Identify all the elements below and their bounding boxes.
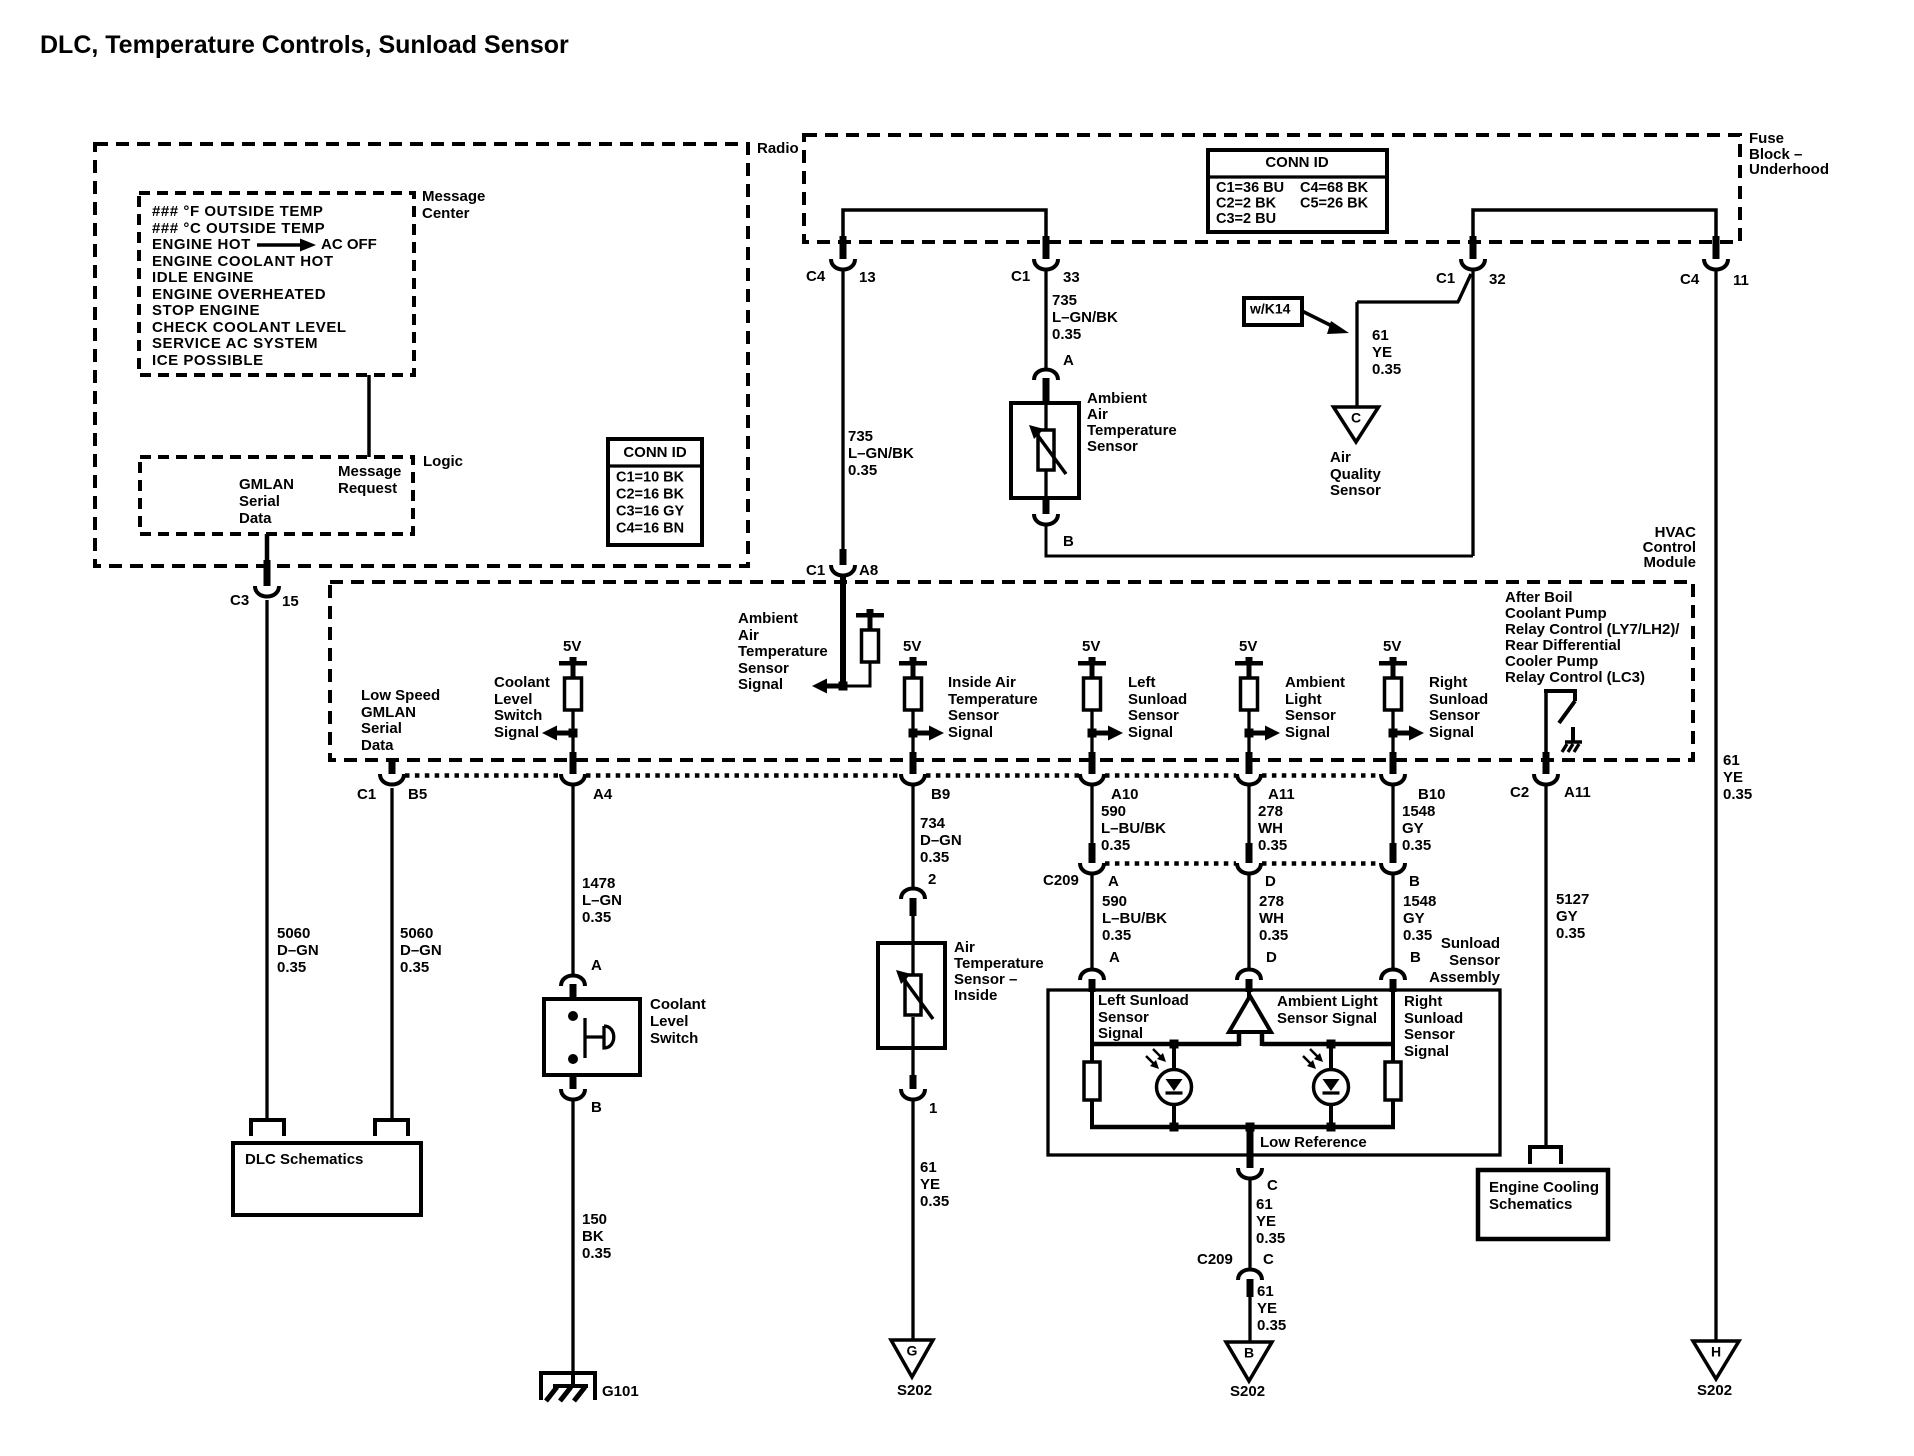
- svg-text:Signal: Signal: [1285, 724, 1330, 741]
- svg-text:0.35: 0.35: [848, 462, 877, 479]
- svg-text:0.35: 0.35: [1723, 786, 1752, 803]
- wire 5127 GY from HVAC C2-A11 to engine cooling schematics: [1544, 786, 1547, 1147]
- wire resistor to junction: [911, 710, 914, 733]
- wire from Message Center to Logic box: [367, 375, 371, 457]
- svg-text:Message: Message: [338, 463, 401, 480]
- svg-text:1548: 1548: [1402, 803, 1435, 820]
- wire 61 YE to splice S202: [911, 1101, 914, 1340]
- svg-text:Inside Air: Inside Air: [948, 674, 1016, 691]
- svg-text:Logic: Logic: [423, 453, 463, 470]
- svg-text:Sunload: Sunload: [1441, 935, 1500, 952]
- svg-text:278: 278: [1259, 893, 1284, 910]
- svg-text:WH: WH: [1258, 820, 1283, 837]
- svg-text:Signal: Signal: [1404, 1043, 1449, 1060]
- wire 1548 from HVAC to C209: [1391, 786, 1394, 847]
- ambient air temperature sensor box: [1011, 403, 1079, 498]
- svg-text:C5=26 BK: C5=26 BK: [1300, 195, 1369, 211]
- wire down to air quality sensor: [1355, 302, 1358, 407]
- wire resistor to junction: [1391, 710, 1394, 733]
- svg-text:Low Reference: Low Reference: [1260, 1134, 1367, 1151]
- svg-text:C3: C3: [230, 592, 249, 609]
- Sunload Sensor Assembly box: [1048, 990, 1500, 1155]
- svg-text:C209: C209: [1043, 872, 1079, 889]
- svg-text:Ambient: Ambient: [738, 610, 798, 627]
- HVAC module connector face dotted line: [405, 773, 560, 778]
- svg-text:B: B: [1244, 1345, 1254, 1361]
- svg-text:H: H: [1711, 1344, 1721, 1360]
- svg-text:C: C: [1351, 410, 1361, 426]
- svg-text:5127: 5127: [1556, 891, 1589, 908]
- svg-text:590: 590: [1102, 893, 1127, 910]
- Logic dashed box: [140, 457, 413, 534]
- svg-text:GY: GY: [1402, 820, 1424, 837]
- wire 1478 L-GN from HVAC A4 to coolant level switch: [571, 786, 574, 974]
- svg-text:0.35: 0.35: [582, 909, 611, 926]
- svg-text:L–BU/BK: L–BU/BK: [1102, 910, 1167, 927]
- svg-text:Sensor: Sensor: [1098, 1009, 1149, 1026]
- connector stub and arc B10: [1390, 752, 1397, 774]
- svg-text:5V: 5V: [1082, 638, 1100, 655]
- connector pin A arc into assembly: [1080, 970, 1104, 981]
- svg-text:S202: S202: [1230, 1383, 1265, 1400]
- svg-text:590: 590: [1101, 803, 1126, 820]
- svg-text:YE: YE: [1372, 344, 1392, 361]
- svg-text:Signal: Signal: [1429, 724, 1474, 741]
- svg-text:0.35: 0.35: [1258, 837, 1287, 854]
- svg-text:C1=10 BK: C1=10 BK: [616, 469, 685, 485]
- connector pin B arc into assembly: [1381, 970, 1405, 981]
- svg-text:L–BU/BK: L–BU/BK: [1101, 820, 1166, 837]
- svg-text:0.35: 0.35: [1257, 1317, 1286, 1334]
- connector C4 pin 11 exit stub and arc: [1713, 236, 1720, 259]
- wire 5060 D-GN from HVAC C1-B5 down to DLC Schematics: [390, 788, 393, 1118]
- wire below sensor to connector pin 1: [911, 1048, 914, 1076]
- junction and arrow ambient air temperature sensor signal: [826, 684, 843, 689]
- thermistor symbol ambient air temperature sensor: [1044, 403, 1047, 430]
- svg-text:33: 33: [1063, 269, 1080, 286]
- wire junction down to module connector: [911, 733, 914, 755]
- wire assembly pin B to internal bus: [1391, 991, 1395, 1046]
- in-line connector C209 pin C: [1238, 1270, 1262, 1281]
- svg-text:0.35: 0.35: [1256, 1230, 1285, 1247]
- svg-text:735: 735: [1052, 292, 1077, 309]
- wire 734 D-GN from HVAC B9 to inside air temperature sensor: [911, 786, 914, 888]
- wire assembly pin D to amplifier: [1247, 991, 1251, 998]
- Fuse Block - Underhood dashed boundary box: [804, 135, 1740, 242]
- svg-text:CONN ID: CONN ID: [1265, 154, 1329, 171]
- wire junction down to module connector: [1391, 733, 1394, 755]
- svg-text:13: 13: [859, 269, 876, 286]
- wire resistor to junction: [571, 710, 574, 733]
- connector pin B stub and arc below sensor: [1043, 498, 1050, 514]
- connector pin A arc into ambient air temperature sensor: [1034, 370, 1058, 381]
- svg-text:Request: Request: [338, 480, 397, 497]
- low reference tap to assembly pin C: [1247, 1127, 1254, 1156]
- svg-text:A: A: [1109, 949, 1120, 966]
- svg-text:0.35: 0.35: [1403, 927, 1432, 944]
- arrow ENGINE HOT to AC OFF: [257, 243, 300, 247]
- air quality sensor triangle C: [1334, 407, 1379, 442]
- connector C1 pin 33 exit stub and arc: [1043, 236, 1050, 259]
- svg-text:D–GN: D–GN: [277, 942, 319, 959]
- junction and signal arrow: [556, 731, 573, 736]
- in-line connector C209 pin B: [1390, 843, 1397, 863]
- connector pin C stub and arc below assembly: [1247, 1155, 1254, 1168]
- svg-text:Engine Cooling: Engine Cooling: [1489, 1179, 1599, 1196]
- svg-text:A: A: [1108, 873, 1119, 890]
- svg-text:Light: Light: [1285, 691, 1322, 708]
- svg-text:A11: A11: [1564, 784, 1591, 801]
- amplifier triangle ambient light sensor: [1229, 996, 1271, 1032]
- connector C3 pin 15 arc: [255, 586, 279, 597]
- off-page bracket into DLC Schematics (left): [251, 1120, 284, 1136]
- svg-text:Coolant: Coolant: [650, 996, 706, 1013]
- connector pin D arc into assembly: [1237, 970, 1261, 981]
- svg-text:WH: WH: [1259, 910, 1284, 927]
- svg-text:Data: Data: [361, 737, 394, 754]
- CONN ID table for Radio connectors: [608, 439, 702, 545]
- svg-text:C4=68 BK: C4=68 BK: [1300, 180, 1369, 196]
- connector stub and arc A11: [1246, 752, 1253, 774]
- left sunload sensor load resistor: [1090, 1044, 1094, 1062]
- svg-text:C2=16 BK: C2=16 BK: [616, 486, 685, 502]
- svg-text:Sensor: Sensor: [1330, 482, 1381, 499]
- svg-text:Right: Right: [1404, 993, 1442, 1010]
- svg-text:0.35: 0.35: [400, 959, 429, 976]
- svg-text:Serial: Serial: [239, 493, 280, 510]
- svg-text:0.35: 0.35: [1101, 837, 1130, 854]
- svg-text:C1: C1: [1011, 268, 1030, 285]
- svg-text:Switch: Switch: [650, 1030, 698, 1047]
- svg-text:GY: GY: [1403, 910, 1425, 927]
- wire to air quality sensor horizontal: [1357, 300, 1459, 303]
- wire 1548 from C209 to sunload sensor assembly: [1391, 875, 1394, 968]
- svg-text:Sensor Signal: Sensor Signal: [1277, 1010, 1377, 1027]
- svg-text:Sensor: Sensor: [738, 660, 789, 677]
- svg-text:YE: YE: [1257, 1300, 1277, 1317]
- svg-text:ICE POSSIBLE: ICE POSSIBLE: [152, 352, 264, 369]
- svg-text:B5: B5: [408, 786, 427, 803]
- svg-text:Center: Center: [422, 205, 470, 222]
- svg-text:Switch: Switch: [494, 707, 542, 724]
- svg-text:0.35: 0.35: [277, 959, 306, 976]
- fuse block internal bus wire right (C1-32 to C4-11): [1473, 210, 1716, 242]
- svg-text:Left Sunload: Left Sunload: [1098, 992, 1189, 1009]
- svg-text:C4: C4: [806, 268, 826, 285]
- wire resistor to junction: [1090, 710, 1093, 733]
- CONN ID table for Fuse Block connectors: [1208, 150, 1387, 232]
- svg-text:Relay Control (LY7/LH2)/: Relay Control (LY7/LH2)/: [1505, 621, 1680, 638]
- svg-text:C2=2 BK: C2=2 BK: [1216, 195, 1277, 211]
- wire sensor B to HVAC supply junction: [1046, 526, 1473, 556]
- svg-text:ENGINE HOT: ENGINE HOT: [152, 236, 251, 253]
- svg-text:A: A: [1063, 352, 1074, 369]
- wire 61 YE from fuse C4-11 down right side to splice S202: [1714, 271, 1717, 1341]
- svg-text:A: A: [591, 957, 602, 974]
- svg-text:YE: YE: [1723, 769, 1743, 786]
- svg-text:w/K14: w/K14: [1249, 301, 1291, 317]
- svg-text:61: 61: [920, 1159, 937, 1176]
- svg-text:Rear Differential: Rear Differential: [1505, 637, 1621, 654]
- svg-text:1: 1: [929, 1100, 937, 1117]
- svg-text:Data: Data: [239, 510, 272, 527]
- svg-text:0.35: 0.35: [1556, 925, 1585, 942]
- svg-text:C2: C2: [1510, 784, 1529, 801]
- svg-text:Assembly: Assembly: [1429, 969, 1501, 986]
- svg-text:B: B: [1410, 949, 1421, 966]
- arrow from w/K14 box to wire: [1302, 311, 1336, 328]
- svg-text:D–GN: D–GN: [400, 942, 442, 959]
- svg-text:0.35: 0.35: [1052, 326, 1081, 343]
- svg-text:Message: Message: [422, 188, 485, 205]
- svg-text:STOP ENGINE: STOP ENGINE: [152, 302, 260, 319]
- C209 connector face dotted line: [1105, 861, 1236, 866]
- svg-text:Sensor: Sensor: [1285, 707, 1336, 724]
- svg-text:Level: Level: [494, 691, 532, 708]
- svg-text:C: C: [1263, 1251, 1274, 1268]
- svg-text:SERVICE AC SYSTEM: SERVICE AC SYSTEM: [152, 335, 318, 352]
- svg-text:Sunload: Sunload: [1128, 691, 1187, 708]
- svg-text:B: B: [591, 1099, 602, 1116]
- svg-text:Ambient: Ambient: [1285, 674, 1345, 691]
- svg-text:DLC Schematics: DLC Schematics: [245, 1151, 363, 1168]
- svg-text:Temperature: Temperature: [1087, 422, 1177, 439]
- svg-text:Signal: Signal: [1098, 1025, 1143, 1042]
- svg-text:Temperature: Temperature: [738, 643, 828, 660]
- svg-text:Sensor: Sensor: [948, 707, 999, 724]
- svg-text:C209: C209: [1197, 1251, 1233, 1268]
- right photodiode ambient light sensor: [1329, 1044, 1333, 1070]
- wire 61 YE from assembly C to C209: [1248, 1180, 1251, 1268]
- svg-text:Signal: Signal: [738, 676, 783, 693]
- svg-text:AC OFF: AC OFF: [321, 236, 377, 253]
- splice S202 triangle B: [1226, 1342, 1272, 1381]
- svg-text:YE: YE: [1256, 1213, 1276, 1230]
- svg-text:Underhood: Underhood: [1749, 161, 1829, 178]
- svg-text:Radio: Radio: [757, 140, 799, 157]
- Engine Cooling Schematics box: [1478, 1170, 1608, 1239]
- wire 590 from HVAC to C209: [1090, 786, 1093, 847]
- svg-text:Air: Air: [1087, 406, 1108, 423]
- svg-text:B10: B10: [1418, 786, 1446, 803]
- svg-text:0.35: 0.35: [582, 1245, 611, 1262]
- internal low reference bus: [1090, 1125, 1395, 1130]
- svg-text:Sunload: Sunload: [1404, 1010, 1463, 1027]
- junction and signal arrow: [1393, 731, 1410, 736]
- wire 278 from C209 to sunload sensor assembly: [1247, 875, 1250, 968]
- internal bus upper left segment: [1090, 1042, 1239, 1047]
- svg-text:A8: A8: [859, 562, 878, 579]
- svg-text:L–GN/BK: L–GN/BK: [848, 445, 914, 462]
- svg-text:5060: 5060: [277, 925, 310, 942]
- fuse block internal bus wire left (C4-13 to C1-33): [843, 210, 1046, 242]
- svg-text:11: 11: [1733, 272, 1749, 289]
- svg-text:Quality: Quality: [1330, 466, 1382, 483]
- wire 61 YE from fuse C1-32 down to junction with sensor-B wire: [1471, 271, 1474, 556]
- svg-text:Air: Air: [738, 627, 759, 644]
- svg-text:0.35: 0.35: [1259, 927, 1288, 944]
- svg-text:C4=16 BN: C4=16 BN: [616, 520, 684, 536]
- svg-text:### °C OUTSIDE TEMP: ### °C OUTSIDE TEMP: [152, 220, 325, 237]
- svg-text:0.35: 0.35: [1372, 361, 1401, 378]
- svg-text:L–GN/BK: L–GN/BK: [1052, 309, 1118, 326]
- svg-text:BK: BK: [582, 1228, 604, 1245]
- diagonal wire branch to air quality sensor: [1458, 274, 1471, 302]
- connector C4 pin 13 exit stub and arc: [840, 236, 847, 259]
- svg-text:S202: S202: [1697, 1382, 1732, 1399]
- wire 735 L-GN/BK from fuse C1-33 to ambient sensor pin A: [1044, 271, 1047, 368]
- in-line connector C1 pin A8: [840, 549, 847, 565]
- wire into sensor: [911, 914, 914, 943]
- Radio module dashed boundary box: [95, 144, 748, 566]
- svg-text:Inside: Inside: [954, 987, 997, 1004]
- svg-text:C: C: [1267, 1177, 1278, 1194]
- off-page bracket into Engine Cooling Schematics: [1530, 1147, 1561, 1164]
- svg-text:ENGINE COOLANT HOT: ENGINE COOLANT HOT: [152, 253, 334, 270]
- svg-text:B9: B9: [931, 786, 950, 803]
- svg-text:32: 32: [1489, 271, 1506, 288]
- svg-text:### °F OUTSIDE TEMP: ### °F OUTSIDE TEMP: [152, 203, 323, 220]
- svg-text:Signal: Signal: [948, 724, 993, 741]
- svg-text:61: 61: [1723, 752, 1740, 769]
- svg-text:C3=2 BU: C3=2 BU: [1216, 211, 1276, 227]
- wire 278 from HVAC to C209: [1247, 786, 1250, 847]
- junction and signal arrow: [913, 731, 930, 736]
- svg-text:Temperature: Temperature: [954, 955, 1044, 972]
- svg-text:B: B: [1063, 533, 1074, 550]
- svg-text:Signal: Signal: [1128, 724, 1173, 741]
- svg-text:B: B: [1409, 873, 1420, 890]
- wire ambient air temperature sensor signal into HVAC module (thick): [840, 577, 846, 686]
- connector C1 pin 32 exit stub and arc: [1470, 236, 1477, 259]
- svg-text:5V: 5V: [1383, 638, 1401, 655]
- svg-text:150: 150: [582, 1211, 607, 1228]
- svg-text:Sensor: Sensor: [1087, 438, 1138, 455]
- svg-text:Fuse: Fuse: [1749, 130, 1784, 147]
- connector stub and arc A4: [570, 752, 577, 774]
- splice S202 triangle H: [1693, 1341, 1739, 1379]
- wire resistor to signal junction: [843, 662, 870, 686]
- svg-text:Air: Air: [1330, 449, 1351, 466]
- svg-text:Ambient: Ambient: [1087, 390, 1147, 407]
- svg-text:ENGINE OVERHEATED: ENGINE OVERHEATED: [152, 286, 326, 303]
- svg-text:CHECK COOLANT LEVEL: CHECK COOLANT LEVEL: [152, 319, 347, 336]
- after boil relay control switch symbol: [1544, 689, 1577, 693]
- svg-text:G101: G101: [602, 1383, 639, 1400]
- junction and signal arrow: [1092, 731, 1109, 736]
- svg-text:2: 2: [928, 871, 936, 888]
- svg-text:Right: Right: [1429, 674, 1467, 691]
- wire GMLAN serial data from Logic box down to connector C3: [265, 534, 270, 566]
- svg-text:C4: C4: [1680, 271, 1700, 288]
- svg-text:5V: 5V: [563, 638, 581, 655]
- wire 150 BK from switch to ground G101: [571, 1101, 574, 1374]
- svg-text:61: 61: [1372, 327, 1389, 344]
- svg-text:1548: 1548: [1403, 893, 1436, 910]
- svg-text:Sunload: Sunload: [1429, 691, 1488, 708]
- junction and signal arrow: [1249, 731, 1266, 736]
- wire 61 YE from C209 to splice S202: [1248, 1297, 1251, 1342]
- connector pin B stub and arc below switch: [570, 1075, 577, 1089]
- svg-text:D–GN: D–GN: [920, 832, 962, 849]
- left photodiode sunload sensor: [1172, 1044, 1176, 1070]
- svg-text:0.35: 0.35: [920, 1193, 949, 1210]
- svg-text:Module: Module: [1644, 554, 1697, 571]
- wire junction down to module connector: [1247, 733, 1250, 755]
- wire relay control to connector C2-A11: [1544, 691, 1548, 753]
- off-page bracket into DLC Schematics (right): [375, 1120, 408, 1136]
- svg-text:CONN ID: CONN ID: [623, 444, 687, 461]
- svg-text:G: G: [907, 1343, 918, 1359]
- svg-text:GMLAN: GMLAN: [239, 476, 294, 493]
- svg-text:Relay Control (LC3): Relay Control (LC3): [1505, 669, 1645, 686]
- svg-text:0.35: 0.35: [920, 849, 949, 866]
- svg-text:15: 15: [282, 593, 299, 610]
- svg-text:GY: GY: [1556, 908, 1578, 925]
- wire junction down to module connector: [1090, 733, 1093, 755]
- svg-text:Coolant Pump: Coolant Pump: [1505, 605, 1607, 622]
- svg-text:IDLE ENGINE: IDLE ENGINE: [152, 269, 254, 286]
- option box w/K14: [1244, 298, 1302, 325]
- wire 590 from C209 to sunload sensor assembly: [1090, 875, 1093, 968]
- svg-text:Coolant: Coolant: [494, 674, 550, 691]
- connector stub and arc B9: [910, 752, 917, 774]
- wire resistor to junction: [1247, 710, 1250, 733]
- in-line connector C209 pin D: [1246, 843, 1253, 863]
- svg-text:5V: 5V: [903, 638, 921, 655]
- svg-text:D: D: [1265, 873, 1276, 890]
- air temperature sensor inside box: [878, 943, 945, 1048]
- wire 735 L-GN/BK from fuse C4-13 down to radio C1-A8: [841, 271, 844, 553]
- svg-text:After Boil: After Boil: [1505, 589, 1573, 606]
- connector stub and arc A10: [1089, 752, 1096, 774]
- svg-text:GMLAN: GMLAN: [361, 704, 416, 721]
- svg-text:S202: S202: [897, 1382, 932, 1399]
- svg-text:L–GN: L–GN: [582, 892, 622, 909]
- svg-text:C3=16 GY: C3=16 GY: [616, 503, 684, 519]
- ground G101 symbol: [541, 1373, 595, 1400]
- svg-text:61: 61: [1257, 1283, 1274, 1300]
- svg-text:C1: C1: [806, 562, 825, 579]
- svg-text:D: D: [1266, 949, 1277, 966]
- thermistor symbol inside air temperature sensor: [911, 943, 914, 975]
- svg-text:734: 734: [920, 815, 946, 832]
- connector pin A arc into coolant level switch: [561, 976, 585, 987]
- svg-text:Sensor: Sensor: [1404, 1026, 1455, 1043]
- svg-text:Left: Left: [1128, 674, 1156, 691]
- connector C1 pin B5 stub and arc (GMLAN): [389, 758, 396, 774]
- svg-text:C1: C1: [1436, 270, 1455, 287]
- svg-text:5060: 5060: [400, 925, 433, 942]
- svg-text:Low Speed: Low Speed: [361, 687, 440, 704]
- svg-text:Schematics: Schematics: [1489, 1196, 1572, 1213]
- svg-text:Sensor: Sensor: [1128, 707, 1179, 724]
- svg-text:0.35: 0.35: [1402, 837, 1431, 854]
- coolant level switch box: [544, 999, 640, 1075]
- svg-text:Cooler Pump: Cooler Pump: [1505, 653, 1598, 670]
- DLC Schematics box: [233, 1143, 421, 1215]
- svg-text:YE: YE: [920, 1176, 940, 1193]
- internal bus upper right segment: [1262, 1042, 1395, 1047]
- connector pin 2 arc: [901, 889, 925, 900]
- svg-text:Level: Level: [650, 1013, 688, 1030]
- svg-text:Sensor: Sensor: [1449, 952, 1500, 969]
- svg-text:A10: A10: [1111, 786, 1139, 803]
- right sunload sensor load resistor: [1391, 1044, 1395, 1062]
- svg-text:A11: A11: [1268, 786, 1295, 803]
- svg-text:DLC, Temperature Controls, Sun: DLC, Temperature Controls, Sunload Senso…: [40, 31, 569, 59]
- wire assembly pin A to internal bus: [1090, 991, 1094, 1046]
